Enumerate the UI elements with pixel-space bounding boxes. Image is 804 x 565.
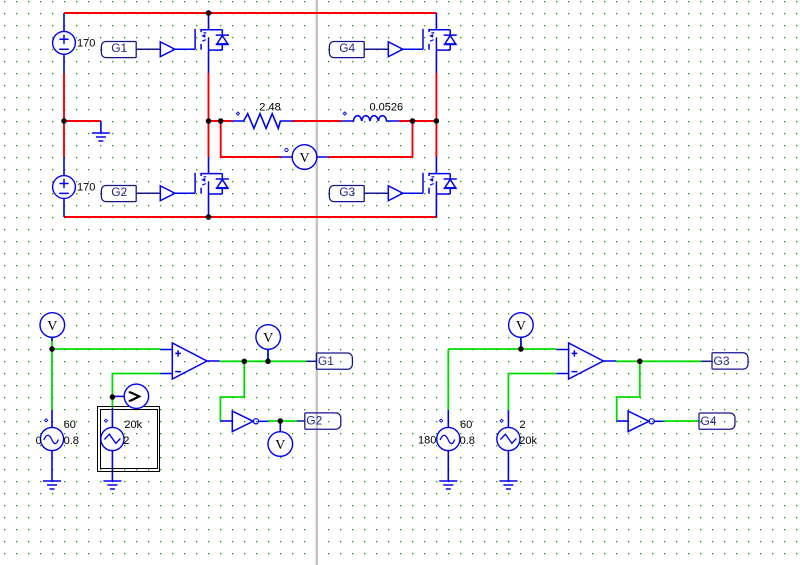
- svg-text:G2: G2: [111, 185, 127, 199]
- svg-text:0.0526: 0.0526: [370, 101, 404, 113]
- svg-text:170: 170: [77, 37, 95, 49]
- svg-text:G1: G1: [318, 354, 334, 368]
- svg-text:G4: G4: [339, 41, 355, 55]
- svg-text:G4: G4: [701, 414, 717, 428]
- svg-text:2.48: 2.48: [259, 102, 280, 114]
- svg-text:G2: G2: [306, 413, 322, 427]
- svg-text:0.8: 0.8: [460, 435, 475, 447]
- svg-text:2: 2: [123, 435, 129, 447]
- svg-text:60: 60: [460, 419, 472, 431]
- svg-text:180: 180: [418, 435, 436, 447]
- svg-text:G1: G1: [111, 41, 127, 55]
- svg-text:2: 2: [520, 419, 526, 431]
- svg-text:0.8: 0.8: [64, 435, 79, 447]
- svg-text:G3: G3: [339, 185, 355, 199]
- svg-text:20k: 20k: [519, 435, 537, 447]
- svg-text:20k: 20k: [124, 419, 142, 431]
- svg-text:G3: G3: [714, 354, 730, 368]
- svg-text:0: 0: [36, 435, 42, 447]
- svg-text:170: 170: [77, 181, 95, 193]
- svg-text:60: 60: [64, 419, 76, 431]
